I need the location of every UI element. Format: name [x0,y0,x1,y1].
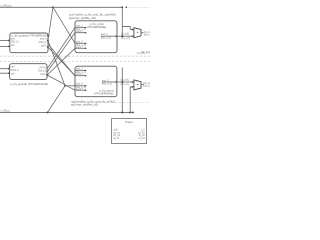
wire: diagonal bottom bus to B' pin3 [48,86,66,113]
node dot on top bus at x53 [52,6,54,8]
svg-text:t2_p4: t2_p4 [139,137,146,140]
arrow at bottom bus right end [132,111,134,113]
node dot V1 on wire W2 [121,81,123,83]
svg-text:aq2=(az_tst&8w_ct0): aq2=(az_tst&8w_ct0) [69,16,96,20]
svg-text:acb: acb [11,44,16,47]
svg-text:(2q_st1): (2q_st1) [121,78,130,81]
node dot bottom bus x122.3 [121,111,123,113]
svg-text:(2t_st1): (2t_st1) [121,33,129,36]
box A input wire 1 [0,39,9,41]
wire: top bus dashed continuation [126,6,151,8]
wire: B2 output stub [102,81,116,83]
wire: horizontal into B' pin3 [65,85,75,87]
wire: A out2 to B2 pin2 (down diagonal) [48,44,75,76]
wire: A2 out3 to B pin4 (up diagonal) [47,48,75,75]
wire: V2 from bottom bus to lower mux select [130,87,132,113]
svg-text:aq2=(az_tst&8w_ct1): aq2=(az_tst&8w_ct1) [71,103,98,107]
node dot bottom bus x47.5 [47,111,49,113]
svg-text:(2w_u1): (2w_u1) [121,37,130,40]
svg-text:acb: acb [11,72,16,75]
wire: B output stub [101,35,116,37]
arrow into upper mux top input [132,29,134,31]
svg-text:(7FVxEFtMAE): (7FVxEFtMAE) [94,92,113,96]
box A2 input wire 2 [0,72,8,74]
box B2 pin1 stub [75,70,85,72]
box B2 pin2 stub [75,75,85,77]
box B pin2 stub [75,32,85,34]
wire: A2 out2 to B pin2 (up diagonal) [47,33,75,72]
svg-text:eq(a_): eq(a_) [76,46,83,49]
wire: bottom bus [0,111,132,113]
node dot at (62,85.5) [64,85,66,87]
wire: vertical net V1 lower segment [121,68,123,113]
svg-text:(bw_u_2): (bw_u_2) [101,36,111,39]
dashed separator line 2 [0,61,150,63]
box B2 pin3 stub [75,85,85,87]
wire: A out1 to lower junction (long down diagonal) [48,40,65,85]
box B2 pin4 stub [75,89,85,91]
svg-text:(7FVxEFtMAE): (7FVxEFtMAE) [87,25,106,29]
wire: vertical net V1 upper segment [121,7,123,36]
wire: V1 jog to upper mux top input [122,26,132,29]
dashed separator line 1 [0,55,150,57]
svg-text:(bw_u_1): (bw_u_1) [102,83,112,86]
wire: diagonal top bus to A out1 [48,7,53,40]
box A upper-left instance [10,33,48,53]
box bnum bottom-right [112,118,147,143]
box B upper-middle instance [75,21,117,53]
box A2 input wire 1 [0,68,8,70]
wire: B2 output to lower mux [117,81,133,83]
wire: top bus dot to B pin3 (down diagonal) [53,7,75,43]
wire: B output to upper mux [117,35,133,37]
svg-text:eq(a_): eq(a_) [76,88,83,91]
svg-text:(bw_u1): (bw_u1) [143,85,150,88]
wire: A out3 to B2 pin2 (down diagonal) [48,47,75,76]
svg-text:(bw_u1): (bw_u1) [144,34,150,37]
box A2 lower-left instance [10,64,48,80]
svg-text:twOL: twOL [41,45,47,48]
box A input wire 2 [0,45,9,47]
mux lower [134,80,141,90]
box B pin1 stub [75,27,85,29]
svg-text:DSL1.0: DSL1.0 [39,41,48,44]
wire: top bus [0,6,122,8]
svg-text:ae_i5: ae_i5 [113,137,120,140]
node dot A2 out3 [46,74,48,76]
svg-text:eq(a_): eq(a_) [76,73,83,76]
mux upper [134,28,141,38]
svg-text:eq(a_): eq(a_) [76,30,83,33]
svg-text:bnum: bnum [125,120,133,124]
wire: A2 out1 to B pin1 (up diagonal) [47,28,75,69]
node dot dashed start [126,7,128,9]
wire: lower mux output [141,83,144,85]
node dot bottom bus x131.2 [129,111,131,113]
box B pin3 stub [75,42,85,44]
svg-text:twOL: twOL [40,73,46,76]
svg-text:u_2MLPVL: u_2MLPVL [137,51,150,55]
svg-text:u_tfu_guardo (7FVxERLNAE): u_tfu_guardo (7FVxERLNAE) [10,82,48,86]
node dot A out1 [47,39,49,41]
svg-text:u_2MLpc: u_2MLpc [0,110,11,113]
box B pin4 stub [75,47,85,49]
wire: upper mux output [141,32,144,34]
wire: A2 out3 to B2 pin4 (shallow down) [47,75,75,90]
box B2 lower-middle instance [75,66,117,97]
node dot top bus right end [121,6,123,8]
node dot V1 on wire W1 [121,35,123,37]
dashed separator line 3 [72,102,150,104]
node dot A out3 [47,46,49,48]
svg-text:(bw_u1): (bw_u1) [121,83,130,86]
